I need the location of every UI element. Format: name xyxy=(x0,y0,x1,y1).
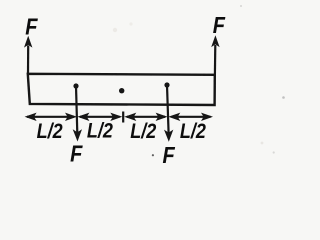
svg-text:L/2: L/2 xyxy=(87,119,113,143)
svg-text:L/2: L/2 xyxy=(130,120,156,144)
svg-text:L/2: L/2 xyxy=(180,120,206,144)
svg-text:L/2: L/2 xyxy=(37,120,63,144)
svg-text:F: F xyxy=(162,141,175,167)
svg-text:F: F xyxy=(25,13,38,40)
svg-text:F: F xyxy=(213,11,226,38)
svg-text:F: F xyxy=(70,140,83,167)
